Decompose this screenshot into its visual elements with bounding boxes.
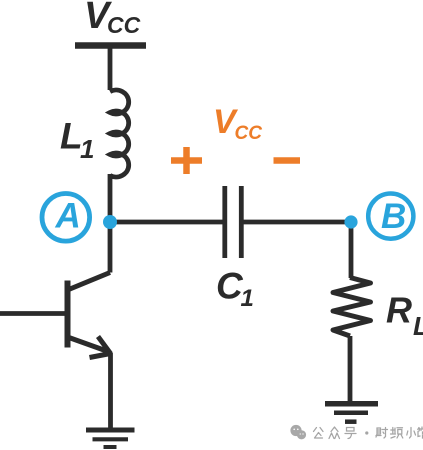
char hao xyxy=(345,428,356,439)
svg-text:R: R xyxy=(386,290,412,331)
C1 value label xyxy=(216,266,254,313)
wire node A down to transistor collector xyxy=(108,222,113,273)
svg-text:B: B xyxy=(381,197,406,236)
node B label circle xyxy=(368,194,413,239)
emitter arrow xyxy=(98,337,111,354)
node B junction dot xyxy=(344,215,357,228)
char pin xyxy=(391,428,403,439)
wire resistor to ground xyxy=(348,336,353,406)
Vcc power rail xyxy=(75,42,146,49)
watermark icon (chat bubbles) xyxy=(290,425,306,440)
base bar xyxy=(65,281,71,348)
Vcc supply label xyxy=(84,0,141,38)
capacitor C1 xyxy=(225,186,242,258)
svg-text:L: L xyxy=(413,311,423,341)
separator dot xyxy=(365,431,368,434)
orange Vcc polarity label xyxy=(213,103,262,144)
char she xyxy=(376,428,388,439)
emitter lead xyxy=(68,337,109,352)
wire emitter to ground xyxy=(108,353,113,431)
svg-text:CC: CC xyxy=(235,123,263,144)
wire capacitor to node B xyxy=(243,220,351,225)
node A label circle xyxy=(42,194,90,242)
ground (right, under RL) xyxy=(325,404,378,422)
transistor Q1 xyxy=(0,273,111,358)
watermark text (simplified glyph strokes) xyxy=(314,427,423,439)
wire inductor to node A xyxy=(108,174,113,224)
wire node B to resistor xyxy=(349,222,354,278)
node A junction dot xyxy=(103,215,117,229)
svg-text:1: 1 xyxy=(241,285,254,312)
L1 value label xyxy=(60,116,94,165)
wire rail to inductor xyxy=(108,45,113,90)
minus sign xyxy=(274,157,301,164)
svg-text:A: A xyxy=(55,197,81,236)
inductor L1 xyxy=(110,90,129,177)
char xiao xyxy=(407,428,416,439)
char guan (clipped at edge) xyxy=(418,427,423,438)
collector lead xyxy=(68,273,111,291)
resistor RL zigzag xyxy=(333,278,371,337)
base wire xyxy=(0,311,68,316)
plus sign xyxy=(171,147,202,174)
svg-text:1: 1 xyxy=(80,134,94,164)
ground (left, under emitter) xyxy=(86,430,135,447)
RL value label xyxy=(386,290,423,342)
char gong xyxy=(314,428,324,439)
wire node A to capacitor xyxy=(110,220,223,225)
char zhong xyxy=(329,427,340,439)
svg-text:CC: CC xyxy=(107,12,141,38)
